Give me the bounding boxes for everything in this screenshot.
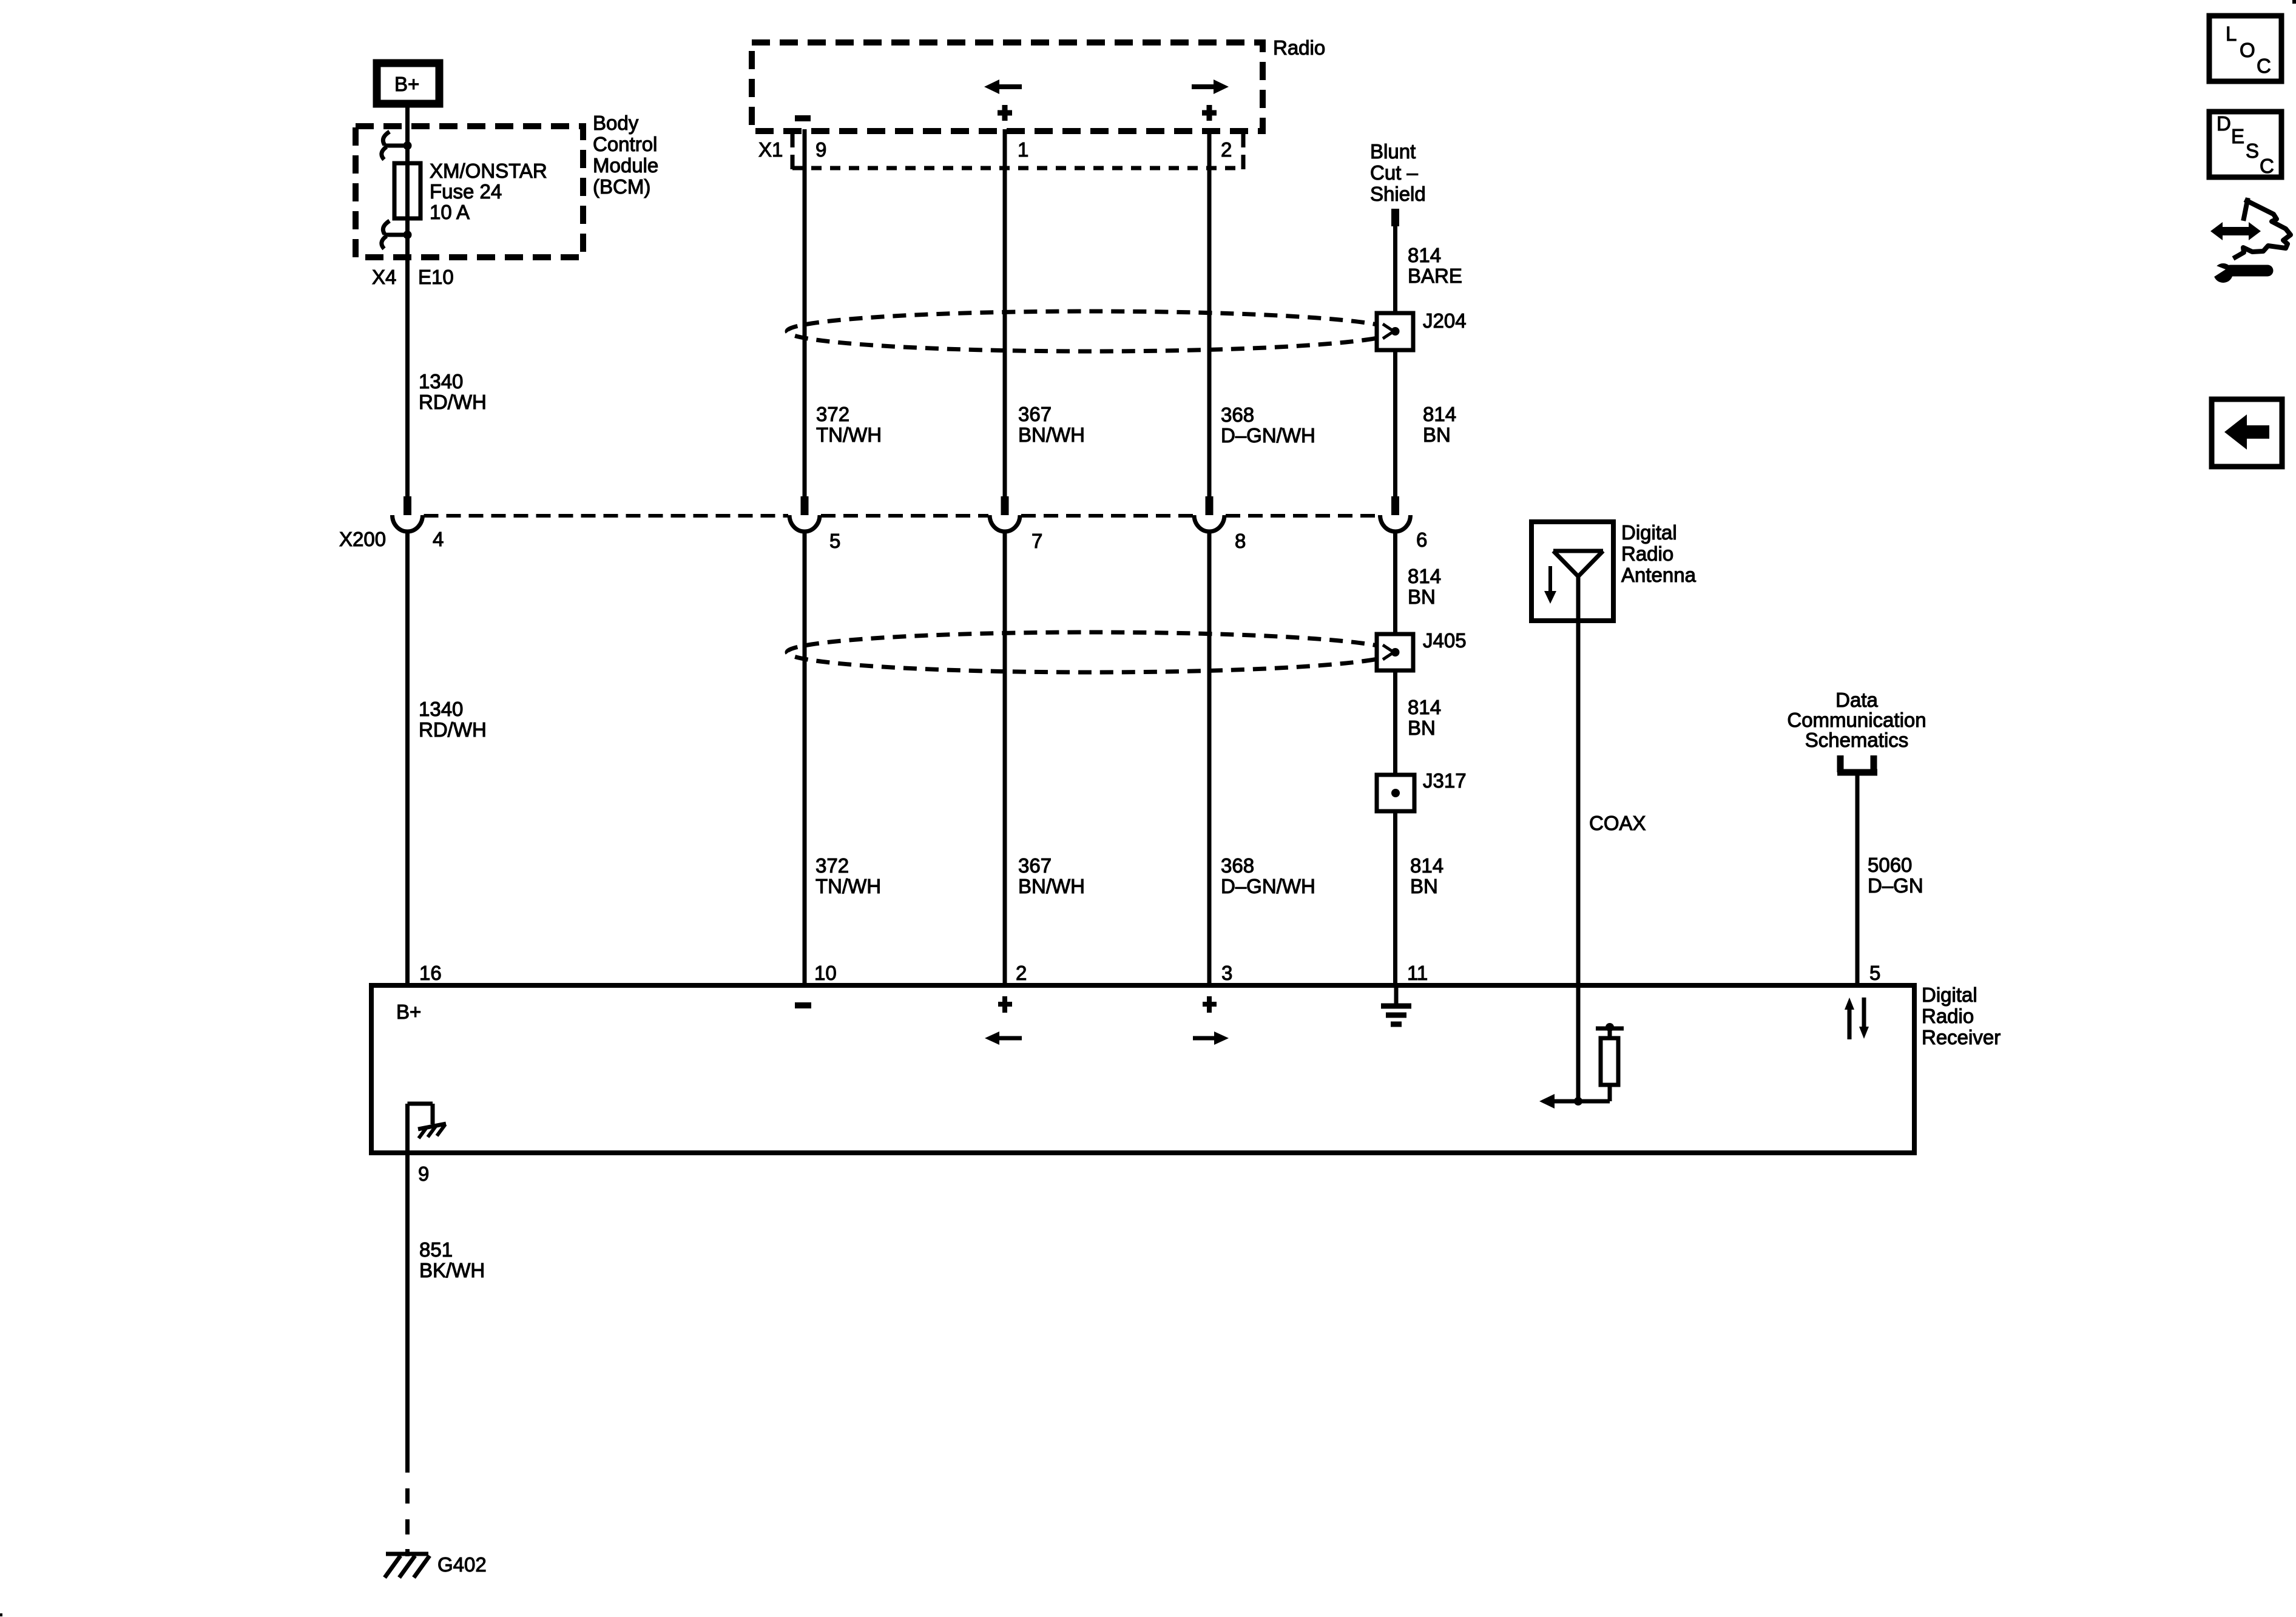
X200 male pin terminals	[403, 496, 1399, 515]
svg-text:814: 814	[1408, 565, 1441, 587]
svg-text:5: 5	[1869, 962, 1880, 984]
svg-text:7: 7	[1032, 530, 1042, 552]
svg-text:1340: 1340	[419, 370, 463, 393]
svg-text:Digital: Digital	[1922, 984, 1977, 1006]
label wire 814 BARE	[1408, 244, 1462, 287]
svg-text:Shield: Shield	[1370, 183, 1426, 205]
svg-text:6: 6	[1416, 528, 1427, 551]
svg-text:COAX: COAX	[1589, 812, 1646, 834]
receiver data arrows up/down	[1845, 998, 1869, 1039]
svg-text:E10: E10	[418, 266, 454, 288]
splice J204	[1377, 313, 1413, 350]
receiver shield ground symbol	[1381, 985, 1411, 1024]
svg-text:Communication: Communication	[1787, 709, 1926, 731]
receiver right audio arrow	[1193, 1031, 1229, 1045]
Radio dashed outline box	[752, 42, 1263, 131]
coax wire inside receiver	[1574, 985, 1582, 1106]
receiver B+ terminal label	[396, 1001, 421, 1023]
svg-text:814: 814	[1410, 854, 1443, 877]
wire 372 TN/WH lower segment	[803, 532, 807, 985]
receiver minus terminal	[795, 1002, 811, 1008]
svg-text:851: 851	[419, 1238, 453, 1261]
svg-text:Fuse 24: Fuse 24	[430, 180, 502, 203]
svg-text:367: 367	[1018, 403, 1052, 425]
icon back arrow box	[2212, 399, 2282, 467]
svg-text:814: 814	[1423, 403, 1456, 425]
blunt cut shield stub	[1391, 209, 1399, 226]
radio minus terminal	[795, 115, 811, 121]
label: Body Control Module (BCM)	[593, 112, 658, 198]
svg-text:Receiver: Receiver	[1922, 1026, 2001, 1048]
svg-text:3: 3	[1221, 962, 1232, 984]
svg-text:Radio: Radio	[1621, 542, 1673, 565]
label wire 851 BK/WH	[419, 1238, 485, 1281]
svg-text:368: 368	[1221, 854, 1254, 877]
label J204	[1423, 309, 1467, 332]
icon DESC box	[2209, 112, 2281, 177]
wire 367 BN/WH lower segment	[1003, 532, 1007, 985]
svg-text:Digital: Digital	[1621, 521, 1677, 544]
svg-text:1340: 1340	[419, 698, 463, 720]
radio plus terminal 1	[998, 105, 1012, 121]
wire 367 BN/WH upper segment	[1003, 129, 1007, 496]
label wire 1340 RD/WH (lower)	[419, 698, 487, 741]
icon diagnostic double arrow	[2210, 222, 2261, 240]
corner tick bottom left	[0, 1613, 2, 1616]
svg-text:TN/WH: TN/WH	[815, 875, 881, 897]
svg-text:J204: J204	[1423, 309, 1467, 332]
svg-text:BN: BN	[1408, 586, 1436, 608]
ground G402	[385, 1554, 430, 1578]
svg-text:O: O	[2240, 39, 2255, 61]
svg-text:L: L	[2226, 22, 2237, 45]
corner tick top right	[2292, 0, 2296, 4]
receiver plus terminal 2	[1203, 996, 1217, 1013]
svg-text:Antenna: Antenna	[1621, 564, 1697, 586]
svg-text:C: C	[2260, 155, 2274, 177]
fuse XM/ONSTAR Fuse 24 10 A	[394, 163, 420, 218]
svg-text:J317: J317	[1423, 769, 1467, 792]
svg-text:B+: B+	[394, 73, 419, 95]
wire 851 BK/WH	[405, 1153, 410, 1473]
svg-text:8: 8	[1235, 530, 1246, 552]
svg-text:XM/ONSTAR: XM/ONSTAR	[430, 160, 547, 182]
svg-text:BN: BN	[1423, 424, 1451, 446]
Digital Radio Antenna box	[1531, 522, 1613, 621]
svg-text:2: 2	[1016, 962, 1027, 984]
label wire 372 TN/WH (upper)	[816, 403, 882, 446]
svg-text:J405: J405	[1423, 629, 1467, 652]
fuse clip upper	[382, 132, 412, 160]
svg-text:Blunt: Blunt	[1370, 140, 1416, 163]
label wire 367 BN/WH (upper)	[1018, 403, 1085, 446]
svg-text:9: 9	[418, 1163, 429, 1185]
wire 372 TN/WH upper segment	[803, 129, 807, 496]
svg-text:10 A: 10 A	[430, 201, 470, 223]
icon LOC box	[2209, 16, 2281, 81]
svg-text:BN: BN	[1408, 717, 1436, 739]
X200 female connector cups	[393, 515, 1411, 532]
label wire 814 BN (X200 to J405)	[1408, 565, 1441, 608]
BCM dashed outline box	[356, 126, 583, 257]
svg-text:TN/WH: TN/WH	[816, 424, 882, 446]
svg-text:G402: G402	[437, 1553, 487, 1576]
svg-text:(BCM): (BCM)	[593, 175, 650, 198]
icon wrench	[2209, 263, 2267, 283]
icon diagnostic outline	[2235, 200, 2291, 257]
label X200 and pins 4 5 7 8 6	[339, 528, 1427, 552]
label G402	[437, 1553, 487, 1576]
label: Digital Radio Receiver	[1922, 984, 2001, 1048]
svg-text:367: 367	[1018, 854, 1052, 877]
svg-text:372: 372	[815, 854, 849, 877]
svg-text:D–GN/WH: D–GN/WH	[1221, 424, 1315, 447]
wire 368 D-GN/WH lower segment	[1207, 532, 1212, 985]
svg-text:16: 16	[419, 962, 442, 984]
label wire 814 BN (J405 to J317)	[1408, 696, 1441, 739]
svg-text:X4: X4	[372, 266, 396, 288]
splice J405	[1377, 634, 1413, 670]
splice J317	[1377, 775, 1414, 811]
wire 368 D-GN/WH upper segment	[1207, 129, 1212, 496]
antenna symbol	[1553, 551, 1603, 621]
svg-text:Cut –: Cut –	[1370, 161, 1419, 184]
Digital Radio Receiver box	[371, 985, 1914, 1153]
off-page connector bracket	[1837, 755, 1877, 772]
wire: B+ feed into BCM fuse	[405, 104, 410, 496]
connector label X4 / E10	[372, 266, 454, 288]
antenna load resistor	[1578, 1023, 1624, 1101]
wire 1340 RD/WH lower segment	[405, 532, 410, 985]
svg-text:BN/WH: BN/WH	[1018, 875, 1085, 897]
svg-text:Body: Body	[593, 112, 639, 134]
svg-text:C: C	[2257, 55, 2271, 77]
svg-text:BN: BN	[1410, 875, 1438, 897]
label X1 and pins 9 1 2	[758, 138, 1232, 161]
coax wire	[1576, 621, 1581, 985]
label wire 814 BN (above X200)	[1423, 403, 1456, 446]
svg-text:X200: X200	[339, 528, 386, 550]
wire 5060 D-GN	[1855, 775, 1860, 985]
wire 814 BN shield lower segment	[1393, 532, 1397, 985]
receiver left audio arrow	[985, 1031, 1022, 1045]
label wire 814 BN (lower)	[1410, 854, 1443, 897]
connector X1 dashed outline	[792, 133, 1243, 169]
label wire 368 D-GN/WH (lower)	[1221, 854, 1315, 897]
svg-text:Data: Data	[1835, 689, 1878, 711]
label J405	[1423, 629, 1467, 652]
svg-text:814: 814	[1408, 244, 1441, 266]
svg-text:11: 11	[1407, 962, 1428, 984]
radio left audio arrow	[984, 79, 1022, 94]
label: Radio	[1273, 36, 1325, 59]
svg-text:2: 2	[1221, 138, 1232, 161]
receiver internal ground pin 9	[408, 1104, 447, 1153]
radio right audio arrow	[1192, 79, 1229, 94]
antenna down arrow	[1544, 566, 1556, 604]
inline connector X200 dashed line	[424, 514, 1379, 518]
label wire 372 TN/WH (lower)	[815, 854, 881, 897]
label: fuse value	[430, 160, 547, 223]
svg-text:BK/WH: BK/WH	[419, 1259, 485, 1281]
svg-text:RD/WH: RD/WH	[419, 391, 487, 413]
label: Data Communication Schematics	[1787, 689, 1926, 751]
label: Digital Radio Antenna	[1621, 521, 1697, 586]
svg-text:Module: Module	[593, 154, 658, 177]
svg-text:Control: Control	[593, 133, 657, 155]
svg-text:Radio: Radio	[1273, 36, 1325, 59]
svg-text:368: 368	[1221, 403, 1254, 426]
svg-text:4: 4	[433, 528, 444, 550]
svg-text:D–GN/WH: D–GN/WH	[1221, 875, 1315, 897]
label wire 367 BN/WH (lower)	[1018, 854, 1085, 897]
svg-text:E: E	[2231, 125, 2244, 147]
svg-text:5060: 5060	[1868, 854, 1912, 876]
label: Blunt Cut - Shield	[1370, 140, 1426, 205]
svg-text:372: 372	[816, 403, 849, 425]
svg-text:Radio: Radio	[1922, 1005, 1974, 1027]
label J317	[1423, 769, 1467, 792]
radio plus terminal 2	[1202, 105, 1217, 121]
svg-text:B+: B+	[396, 1001, 421, 1023]
svg-text:D–GN: D–GN	[1868, 874, 1923, 897]
svg-text:5: 5	[829, 530, 840, 552]
receiver plus terminal 1	[998, 996, 1012, 1013]
svg-text:BN/WH: BN/WH	[1018, 424, 1085, 446]
twisted pair shield ellipse upper	[787, 311, 1395, 351]
svg-text:D: D	[2217, 112, 2231, 135]
svg-text:S: S	[2246, 140, 2259, 162]
label wire 368 D-GN/WH (upper)	[1221, 403, 1315, 447]
wire 851 dashed continuation	[405, 1488, 410, 1556]
svg-text:Schematics: Schematics	[1805, 729, 1909, 751]
svg-text:RD/WH: RD/WH	[419, 718, 487, 741]
label pin 9	[418, 1163, 429, 1185]
twisted pair shield ellipse lower	[787, 632, 1395, 672]
label wire 1340 RD/WH (upper)	[419, 370, 487, 413]
wire 814 BARE segment	[1393, 224, 1397, 496]
svg-text:BARE: BARE	[1408, 265, 1462, 287]
coax termination arrow	[1539, 1094, 1578, 1109]
label COAX	[1589, 812, 1646, 834]
svg-text:10: 10	[814, 962, 837, 984]
svg-text:814: 814	[1408, 696, 1441, 718]
power symbol B+	[377, 63, 439, 104]
label wire 5060 D-GN	[1868, 854, 1923, 897]
svg-text:9: 9	[815, 138, 826, 161]
svg-text:1: 1	[1018, 138, 1028, 161]
receiver pin labels 16 10 2 3 11 5	[419, 962, 1880, 984]
svg-text:X1: X1	[758, 138, 783, 161]
fuse clip lower	[382, 221, 412, 249]
